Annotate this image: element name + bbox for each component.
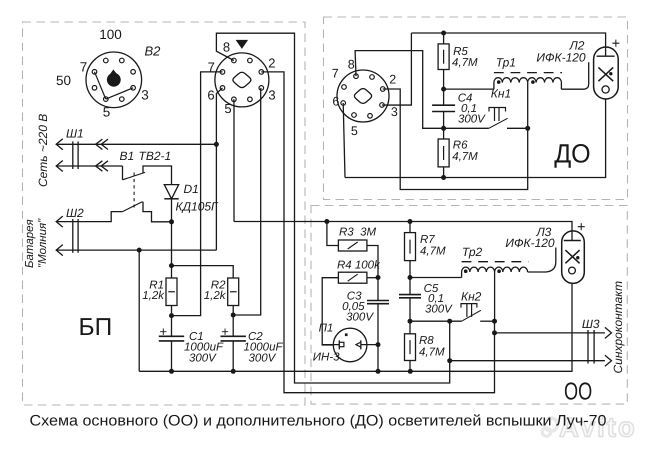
wire Кн2-left branch down [449, 321, 451, 361]
svg-text:300V: 300V [249, 353, 277, 365]
wire C2 bottom to rail [232, 341, 234, 371]
svg-text:3: 3 [141, 88, 149, 103]
svg-text:Батарея: Батарея [24, 219, 36, 268]
connector socket ДО (8-pin) [337, 70, 389, 122]
wire R8 bottom to rail [409, 361, 411, 372]
block БП boundary (dashed box) [23, 22, 306, 405]
wire pin3 down to R2-bottom node [233, 88, 261, 315]
wire ДО pin2 to Кн1-right node [383, 89, 528, 190]
svg-text:КД105Г: КД105Г [176, 200, 220, 214]
svg-text:8: 8 [348, 58, 355, 72]
arrowheads Ш1 [56, 139, 63, 150]
junction (R7 top) [408, 219, 413, 224]
svg-text:Тр2: Тр2 [462, 245, 483, 259]
wire Ш3 upper line [495, 332, 605, 334]
polarity dot (Тр2 start) [464, 269, 468, 273]
resistor R7 [405, 233, 416, 261]
wire Ш2 bottom line [57, 249, 217, 251]
capacitor C2 [221, 335, 246, 337]
resistor R3 [338, 240, 367, 251]
wire ДО pin6 to bottom rail [343, 103, 345, 177]
wire ДО top rail [411, 33, 605, 47]
diode D1 [164, 185, 178, 199]
svg-text:300V: 300V [346, 311, 374, 323]
svg-text:4,7M: 4,7M [420, 246, 446, 258]
wire R1-R2 top link [172, 266, 234, 278]
svg-text:100: 100 [99, 27, 122, 42]
junction (diode bottom node) [169, 219, 174, 224]
svg-text:R7: R7 [420, 234, 435, 246]
svg-text:Ш3: Ш3 [582, 317, 600, 331]
wire branch down to ground rail [138, 250, 140, 371]
svg-text:3: 3 [391, 105, 398, 119]
resistor R1 [166, 278, 177, 306]
connector socket (main, 8-pin) [215, 53, 269, 107]
junction (R3/R4/C3 node) [376, 275, 381, 280]
svg-text:8: 8 [223, 39, 230, 54]
svg-text:R6: R6 [453, 140, 468, 152]
wire diode node down to R1 [171, 222, 173, 278]
wire Тр1 secondary to trigger of Л2 [561, 88, 584, 90]
connector Ш2 (two bars) [72, 219, 74, 253]
junction (Ш2-bottom branch to rail) [137, 248, 142, 253]
wire ДО pin8 to C4-bottom node [355, 51, 444, 129]
wire R7 bottom to node [409, 261, 411, 278]
svg-text:Ш1: Ш1 [66, 127, 84, 141]
resistor R5 [438, 44, 449, 70]
svg-text:R4 100k: R4 100k [337, 260, 381, 272]
resistor R8 [405, 334, 416, 361]
junction (Ш1-top / pin6 wire) [214, 142, 219, 147]
wire Ш3 lower line [450, 360, 605, 362]
junction (Ш3 lower branch) [447, 358, 452, 363]
connector Ш3 (two bars) [587, 330, 589, 364]
wire ДО pin3 to top rail [382, 33, 411, 105]
svg-text:4,7M: 4,7M [419, 347, 445, 359]
wire pin5 down-right (OO top rail feed) [233, 99, 235, 221]
wire Ш2-top to switch pole2 pivot [57, 212, 123, 222]
switch В1 pole1 blade [123, 172, 146, 179]
wire C3 bottom to rail [377, 304, 379, 372]
svg-text:300V: 300V [458, 114, 486, 126]
svg-text:D1: D1 [184, 182, 199, 196]
svg-text:Тр1: Тр1 [496, 56, 516, 70]
wire OO top rail [234, 222, 572, 231]
wire Ш1-bottom to switch pivot [122, 166, 124, 180]
wire pole1 fixed contact to diode [143, 166, 172, 185]
wire ДО bottom rail [345, 99, 606, 178]
wire R4 right to node [367, 277, 378, 279]
svg-text:+: + [612, 36, 620, 52]
svg-text:Кн2: Кн2 [461, 290, 482, 304]
flash lamp Л2 [594, 47, 619, 99]
watermark Avito [542, 412, 636, 443]
wire R7 node to Тр2 primary [410, 277, 462, 279]
svg-text:1,2k: 1,2k [204, 290, 227, 302]
pushbutton Кн2 [410, 320, 462, 322]
junction (C2 rail) [231, 369, 236, 374]
svg-text:ИФК-120: ИФК-120 [505, 236, 555, 250]
svg-text:5: 5 [103, 105, 111, 120]
rotary switch B2 (panel view) [86, 52, 142, 108]
wire pin8 loop (up-over-down to OO Kn2-left node) [216, 33, 449, 383]
wire Тр2 secondary to trigger of Л3 [528, 271, 546, 273]
wire R3 right to node [367, 246, 378, 278]
block ДО boundary (dashed box) [324, 17, 628, 200]
junction (C5 bottom node) [408, 319, 413, 324]
junction (Ш3 upper branch) [492, 330, 497, 335]
svg-text:5: 5 [351, 124, 358, 138]
wire R5 top leg [443, 33, 445, 44]
wire node down to R6 [443, 128, 445, 139]
junction (R7 bottom node) [408, 275, 413, 280]
svg-text:ДО: ДО [554, 139, 591, 169]
capacitor C3 [367, 300, 389, 302]
svg-text:7: 7 [332, 67, 339, 81]
wire C4 bottom to node [443, 112, 445, 129]
wire ground rail (bottom) [139, 283, 572, 371]
svg-text:6: 6 [207, 87, 214, 102]
junction (R6 rail node) [441, 175, 446, 180]
svg-text:Синхроконтакт: Синхроконтакт [611, 281, 625, 374]
svg-text:2: 2 [268, 56, 275, 71]
svg-text:7: 7 [80, 60, 88, 75]
capacitor C4 [432, 104, 455, 106]
pushbutton Кн1 [444, 127, 489, 129]
capacitor C1 [159, 335, 184, 337]
neon lamp П1 [322, 328, 378, 362]
wire pin6 down (to Ш1/Ш2 wires) [216, 88, 222, 250]
svg-text:2: 2 [389, 73, 396, 87]
wire Тр1 tap down to Кн1 [527, 83, 529, 129]
switch В1 link (dashed) [133, 173, 135, 208]
resistor R2 [228, 278, 239, 306]
svg-text:ОО: ОО [564, 378, 592, 405]
wire pole2 fixed contact [143, 202, 172, 222]
junction (Кн2 right) [492, 319, 497, 324]
svg-text:6: 6 [332, 95, 339, 109]
junction (R8 rail node) [408, 369, 413, 374]
orientation marker (filled triangle) [236, 40, 249, 49]
wire Ш1 lines [57, 143, 217, 145]
arrowheads Ш2 [56, 216, 63, 227]
svg-text:50: 50 [56, 73, 71, 88]
junction (Кн2 left) [447, 319, 452, 324]
resistor R4 [338, 272, 367, 283]
wire R7 top leg [409, 222, 411, 233]
tap dot (Тр2) [497, 269, 501, 273]
svg-text:Кн1: Кн1 [491, 87, 511, 101]
wire node down to C5 [409, 278, 411, 295]
flash lamp Л3 [562, 231, 585, 284]
wire node down to C3 [377, 278, 379, 301]
svg-text:4,7M: 4,7M [452, 57, 478, 69]
svg-text:3: 3 [268, 87, 275, 102]
wire C5 bottom to node [409, 298, 411, 321]
resistor R6 [438, 139, 449, 167]
svg-text:ТВ2-1: ТВ2-1 [139, 149, 172, 163]
svg-text:R8: R8 [419, 335, 434, 347]
svg-text:ИФК-120: ИФК-120 [536, 51, 586, 65]
junction (П1 right node) [376, 342, 381, 347]
svg-text:Ш2: Ш2 [66, 206, 84, 220]
svg-text:ИН-3: ИН-3 [313, 352, 340, 364]
junction (R2 bottom node) [231, 313, 236, 318]
arrowheads Ш3 [605, 327, 612, 338]
svg-text:R3 3М: R3 3М [339, 227, 376, 239]
svg-text:+: + [160, 324, 168, 339]
svg-text:В1: В1 [120, 149, 135, 163]
transformer Тр1 core (dashed) [494, 72, 562, 74]
tap dot (Тр1) [531, 80, 535, 84]
wire R5 bottom to node [443, 70, 445, 106]
polarity dot (Тр1 start) [497, 80, 501, 84]
svg-text:300V: 300V [425, 304, 453, 316]
junction (R5 top) [441, 31, 446, 36]
wire Тр2 tap down to Кн2 [494, 272, 496, 321]
svg-text:В2: В2 [145, 44, 162, 59]
transformer Тр1 winding [494, 78, 562, 90]
wire R4 left leg to П1 [322, 278, 338, 345]
wire R2 bottom to C2 [232, 306, 234, 337]
transformer Тр2 core (dashed) [462, 261, 529, 263]
plug chevrons Ш1 [96, 139, 103, 149]
junction (R1 bottom node) [169, 313, 174, 318]
wire diode cathode to node [171, 199, 173, 222]
switch В1 pole2 blade [123, 202, 143, 212]
connector Ш1 (two bars) [72, 142, 74, 170]
svg-text:5: 5 [224, 101, 231, 116]
wire pin7 down to R1-bottom node [172, 72, 223, 316]
wire node down to R8 [409, 321, 411, 334]
svg-text:Сеть ~220 В: Сеть ~220 В [36, 114, 50, 187]
wire R1 bottom to C1 [171, 306, 173, 337]
junction (C3 rail node) [376, 369, 381, 374]
junction (R3 branch) [324, 219, 329, 224]
svg-text:4,7M: 4,7M [452, 151, 478, 163]
capacitor C5 [399, 294, 421, 296]
svg-text:1,2k: 1,2k [142, 290, 165, 302]
junction (C4 bottom node) [441, 126, 446, 131]
svg-text:БП: БП [79, 314, 113, 341]
wire pin2 right-down to OO Kn2-right node [261, 72, 494, 393]
svg-text:+: + [221, 324, 229, 339]
wire R6 bottom to rail [443, 167, 445, 178]
svg-text:П1: П1 [319, 322, 334, 334]
junction (R5 bottom node) [441, 87, 446, 92]
svg-text:"Молния": "Молния" [37, 218, 49, 268]
junction (Кн1 right / tap node) [525, 126, 530, 131]
transformer Тр2 winding [462, 267, 528, 277]
svg-text:300V: 300V [189, 353, 217, 365]
svg-text:Схема основного (ОО) и дополни: Схема основного (ОО) и дополнительного (… [30, 413, 607, 430]
junction (R1 top node) [169, 263, 174, 268]
wire R3 left leg [327, 222, 339, 246]
wire C1 bottom to rail [171, 341, 173, 371]
junction (C1 rail) [169, 369, 174, 374]
block ОО boundary (dashed box) [311, 206, 627, 405]
wire R5 node to Тр1 primary [444, 88, 494, 90]
